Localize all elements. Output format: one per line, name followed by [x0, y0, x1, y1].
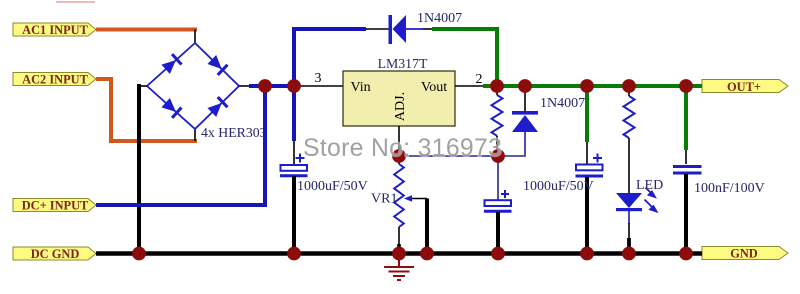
wire D5 to green — [423, 28, 433, 30]
port label GND — [702, 247, 788, 261]
wire AC2 orange — [96, 79, 197, 141]
wire AC1 orange — [96, 28, 197, 32]
junction node LED branch top — [622, 79, 636, 93]
wire ground bus — [96, 251, 702, 255]
capacitor C2 lead bottom — [496, 212, 500, 254]
capacitor C1 lead top blue — [292, 86, 296, 141]
junction node blue rail 2 — [287, 79, 301, 93]
resistor R1 zigzag — [492, 95, 503, 136]
bridge diode D3 bottom-left — [161, 97, 183, 118]
wire ADJ rail navy — [399, 130, 525, 156]
capacitor C3 plates — [576, 165, 604, 177]
capacitor C3 lead thin — [586, 142, 588, 165]
wire Vout to node pin 2 — [455, 85, 497, 87]
capacitor C4 lead thin — [685, 150, 687, 164]
LED lead bottom — [628, 211, 630, 224]
wire wiper down (black) — [425, 199, 429, 254]
resistor R2 lead bottom — [628, 138, 630, 193]
wire blue main rail — [249, 84, 296, 88]
potentiometer VR1 lead top — [398, 156, 400, 164]
resistor R1 lead bottom — [496, 136, 498, 156]
junction node Vout/pin2 — [490, 79, 504, 93]
capacitor C1 plates — [280, 165, 308, 176]
wire to Vin pin 3 — [294, 85, 343, 87]
svg-text:2: 2 — [476, 72, 483, 87]
port label AC1 INPUT — [13, 23, 96, 37]
svg-text:1N4007: 1N4007 — [540, 96, 585, 111]
wire DC+ input blue — [96, 86, 265, 205]
svg-text:DC+ INPUT: DC+ INPUT — [22, 199, 89, 213]
resistor R1 (Vout-ADJ) lead top — [496, 86, 498, 95]
wire ADJ pin down — [398, 126, 400, 156]
regulator U1 LM317T body — [343, 71, 455, 126]
wire bridge left to gnd drop — [139, 85, 147, 87]
capacitor C3 lead bottom — [585, 177, 589, 254]
capacitor C1 plus sign — [296, 154, 305, 163]
svg-text:DC GND: DC GND — [31, 247, 80, 261]
svg-text:4x HER303: 4x HER303 — [201, 125, 267, 140]
diode D5 1N4007 top stub left — [366, 28, 389, 30]
svg-text:GND: GND — [730, 247, 758, 261]
junction node ADJ right — [491, 149, 505, 163]
port label DC GND — [13, 247, 96, 261]
junction node bus x139 — [132, 247, 146, 261]
capacitor C2 plates — [484, 200, 512, 211]
port label DC+ INPUT — [13, 199, 96, 213]
bridge diode D4 bottom-right — [207, 96, 229, 118]
bridge diode D2 top-right — [207, 54, 229, 76]
diode D6 1N4007 vertical — [512, 111, 538, 132]
LED arrows — [645, 188, 657, 212]
svg-text:Vin: Vin — [351, 80, 371, 95]
capacitor C3 plus sign — [593, 154, 602, 163]
LED symbol — [616, 193, 642, 211]
port label AC2 INPUT — [13, 73, 96, 87]
junction node bus x498 — [491, 247, 505, 261]
svg-text:LM317T: LM317T — [378, 56, 428, 71]
potentiometer VR1 lead bottom — [398, 227, 400, 245]
svg-text:Store No: 316973: Store No: 316973 — [303, 135, 502, 162]
junction node D6 top — [518, 79, 532, 93]
svg-text:LED: LED — [636, 178, 663, 193]
svg-text:VR1: VR1 — [371, 192, 397, 207]
resistor R2 zigzag (LED series) — [624, 96, 635, 138]
resistor R2 lead top — [628, 86, 630, 96]
svg-text:OUT+: OUT+ — [727, 80, 761, 94]
svg-text:AC1 INPUT: AC1 INPUT — [22, 23, 88, 37]
wire green from D5 to Vout node — [432, 29, 497, 86]
junction node ADJ left — [392, 149, 406, 163]
capacitor C3 lead top green — [585, 86, 589, 142]
wire green output bus — [483, 84, 702, 88]
junction node bus x587 — [580, 247, 594, 261]
svg-text:3: 3 — [315, 71, 322, 86]
svg-text:1000uF/50V: 1000uF/50V — [297, 179, 368, 194]
ground symbol — [384, 258, 414, 280]
junction node bus x686 — [679, 247, 693, 261]
junction node C4 top — [679, 79, 693, 93]
capacitor C1 lead bottom — [292, 176, 296, 254]
bridge rectifier frame 4x HER303 — [147, 43, 239, 129]
capacitor C2 lead top (ADJ cap) — [497, 156, 499, 200]
capacitor C4 plates — [673, 167, 702, 174]
svg-text:1000uF/50V: 1000uF/50V — [523, 179, 594, 194]
capacitor C1 lead thin — [293, 141, 295, 165]
svg-text:AC2 INPUT: AC2 INPUT — [22, 73, 88, 87]
diode D6 1N4007 lead top — [524, 86, 526, 111]
svg-text:1N4007: 1N4007 — [417, 11, 462, 26]
junction node bus x294 — [287, 247, 301, 261]
svg-text:ADJ.: ADJ. — [393, 92, 408, 121]
bridge diode D1 top-left — [161, 53, 183, 74]
wire AC1 to bridge top — [194, 30, 196, 45]
junction node bus x427 — [420, 247, 434, 261]
svg-text:100nF/100V: 100nF/100V — [694, 181, 765, 196]
wire blue up to diode D5 — [294, 29, 366, 86]
junction node bus x399 — [392, 247, 406, 261]
wire AC2 to bridge bottom — [194, 128, 196, 141]
capacitor C4 lead bottom — [684, 174, 688, 254]
potentiometer VR1 wiper arrow — [409, 198, 427, 200]
capacitor C2 plus sign — [501, 190, 509, 198]
wire bridge right stub — [239, 85, 251, 87]
capacitor C4 lead top green — [684, 86, 688, 150]
junction node C3 top — [580, 79, 594, 93]
potentiometer VR1 zigzag — [394, 164, 404, 227]
top-left crop remnant — [56, 1, 95, 3]
port label OUT+ — [702, 80, 788, 95]
junction node bus x629 — [622, 247, 636, 261]
diode D5 1N4007 — [389, 15, 424, 44]
wire gnd drop (black) — [137, 84, 141, 254]
svg-text:Vout: Vout — [421, 80, 447, 95]
junction node blue rail 1 — [258, 79, 272, 93]
